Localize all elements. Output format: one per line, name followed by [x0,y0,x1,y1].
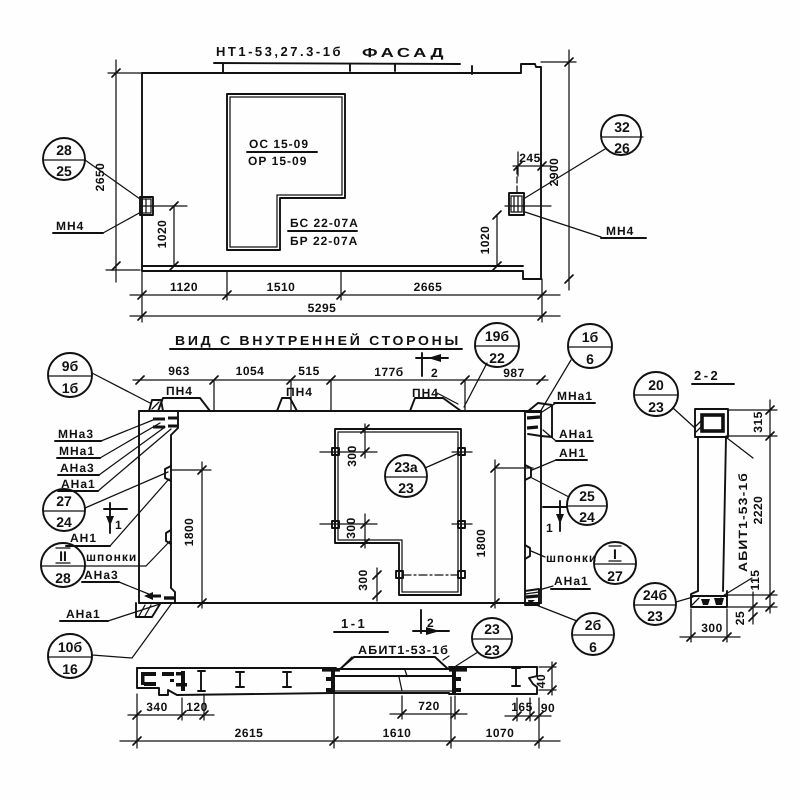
svg-text:23а: 23а [394,459,418,475]
svg-text:24: 24 [579,509,595,525]
inner opening (L-shaped, double outline) [335,429,461,595]
svg-text:5295: 5295 [308,301,337,315]
svg-text:6: 6 [589,639,597,655]
svg-text:25: 25 [56,163,72,179]
svg-text:ФАСАД: ФАСАД [362,45,447,60]
svg-text:26: 26 [614,140,630,156]
left labels МНа3 МНа1 АНа3 АНа1 [55,420,171,491]
rebar mark x516 [512,668,520,686]
wedge ПН4 #3 [410,398,461,411]
left end details of section 1-1 [141,671,205,691]
leader АБИТ top to block [727,438,753,458]
title 2-2 [692,368,734,384]
svg-text:177б: 177б [374,365,403,379]
svg-text:27: 27 [607,568,623,584]
dim 40 right of section [534,662,556,695]
section 1-1 profile outline [137,667,537,695]
dim 1800 right [474,460,533,608]
svg-text:10б: 10б [58,639,83,655]
svg-text:300: 300 [344,517,358,539]
title 1-1 [334,616,388,632]
svg-text:27: 27 [56,493,72,509]
svg-text:БС 22-07А: БС 22-07А [290,216,359,230]
svg-text:ОР 15-09: ОР 15-09 [248,154,307,168]
leader АБИТ to plateau right [443,656,449,660]
inner view top dim line 963 1054 515 177б 987 [133,364,548,410]
svg-text:МН4: МН4 [606,224,634,238]
callout circle 19б/22 [475,323,519,367]
svg-text:ОС 15-09: ОС 15-09 [249,137,309,151]
svg-text:340: 340 [146,700,168,714]
leader АБИТ to plateau left [342,657,352,667]
rebar mark x240 [236,672,244,687]
svg-text:720: 720 [418,699,440,713]
anchor Т mark x332 [322,668,340,693]
sill break marks [405,670,407,676]
svg-text:АН1: АН1 [559,446,586,460]
svg-text:шпонки: шпонки [546,551,597,565]
шпонки keys left rib [166,530,171,544]
leader 2б/6 to panel bottom corner [531,603,577,621]
inner panel left rib line [171,411,178,603]
leader 32/26 to right МН4 [525,149,605,198]
callout circle 27/24 [43,489,85,531]
svg-text:515: 515 [298,364,320,378]
svg-text:1-1: 1-1 [341,616,367,631]
dim 1020 facade right [478,211,501,270]
opening centerline dashed [403,574,458,576]
svg-text:МНа1: МНа1 [557,389,593,403]
bottom-left corner anchor wedge [152,595,161,598]
svg-text:2б: 2б [585,617,602,633]
label АНа1 lower-left [60,604,160,621]
dims 2615 1610 1070 [120,694,560,748]
svg-text:АНа3: АНа3 [84,568,119,582]
svg-text:шпонки: шпонки [86,550,137,564]
wedge ПН4 #2 [277,398,297,411]
svg-text:120: 120 [186,700,208,714]
svg-text:1020: 1020 [155,220,169,249]
callout circle 25/24 [567,485,607,525]
svg-text:23: 23 [647,608,663,624]
svg-text:1070: 1070 [486,726,515,740]
svg-text:МН4: МН4 [56,219,84,233]
facade bottom dims row 1: 1120 1510 2665 [130,271,560,322]
callout circle 23/23 [472,618,512,658]
leader 25/24 to АН1 notch right [532,478,569,497]
svg-text:24б: 24б [643,587,668,603]
шпонки keys right rib [525,545,530,559]
svg-text:ПН4: ПН4 [166,384,193,398]
callout circle 2б/6 [572,613,614,655]
leader 27/24 to АН1 notch [85,472,168,508]
leader 10б/16 to bottom corner [92,603,172,658]
svg-text:25: 25 [733,611,747,625]
svg-text:1610: 1610 [383,726,412,740]
svg-text:1054: 1054 [236,364,265,378]
top-right corner wedge АНа1 [527,427,538,428]
leader 1б/6 to top-right corner [540,360,571,412]
dim 245 [513,151,551,176]
label АНа3 lower-left [82,568,156,597]
svg-text:2665: 2665 [414,280,443,294]
svg-text:165: 165 [511,700,533,714]
callout circle 1б/6 [568,324,612,368]
callout circle 24б/23 [634,583,676,625]
dim chain right of 2-2: 315 2220 115 [726,400,777,613]
dims 340 120 below section [128,694,214,748]
leader шпонки right [531,551,545,557]
text БС 22-07А / БР 22-07А [288,216,359,248]
svg-text:II: II [59,548,67,564]
svg-text:23: 23 [484,621,500,637]
rebar mark x287 [283,672,291,687]
corner block 9б top-left [149,400,163,411]
svg-text:2220: 2220 [751,496,765,525]
section mark 1 left [104,503,127,533]
svg-text:300: 300 [345,445,359,467]
svg-text:2900: 2900 [547,158,561,187]
svg-text:АНа1: АНа1 [66,607,101,621]
svg-text:20: 20 [648,377,664,393]
svg-text:115: 115 [748,570,762,591]
title НТ1-53,27.3-1б ФАСАД [214,44,472,74]
callout circle 9б/1б [48,353,92,397]
svg-text:28: 28 [56,142,72,158]
plateau АБИТ strip in section [340,657,448,669]
top-right corner wedge МНа1 [527,411,541,413]
leader 20/23 to top block [673,408,695,428]
left mount МН4 [140,197,187,215]
leader 9б/1б to corner block [92,373,150,403]
dim 300 opening mid-left [320,514,377,548]
svg-text:23: 23 [484,642,500,658]
svg-text:2: 2 [431,366,439,380]
svg-text:28: 28 [55,570,71,586]
svg-text:963: 963 [168,364,190,378]
svg-text:1800: 1800 [182,518,196,547]
right mount МН4 [505,168,551,215]
top-left anchor dashes МНа/АНа [153,418,178,427]
leader 19б/22 to ПН4 wedge [464,363,487,407]
leader 23/23 to anchor [456,652,478,666]
facade panel bottom ledge line [142,265,523,267]
section mark 2 top [416,353,448,380]
svg-text:22: 22 [489,350,505,366]
facade opening (L-shaped, double outline) [227,94,345,250]
facade bottom dims row 2: 5295 [130,301,560,320]
svg-text:16: 16 [62,661,78,677]
svg-text:1б: 1б [62,380,79,396]
svg-text:АН1: АН1 [70,531,97,545]
svg-text:АНа1: АНа1 [554,574,589,588]
svg-text:9б: 9б [62,358,79,374]
svg-text:НТ1-53,27.3-1б: НТ1-53,27.3-1б [216,44,343,59]
opening anchor squares [332,448,465,578]
svg-text:1510: 1510 [267,280,296,294]
svg-text:32: 32 [614,119,630,135]
svg-text:1120: 1120 [170,280,198,294]
svg-text:1800: 1800 [474,529,488,558]
svg-text:1б: 1б [582,329,599,345]
svg-text:1: 1 [115,518,123,532]
dim 2650 left [93,60,142,282]
svg-text:300: 300 [701,621,723,635]
svg-text:АБИТ1-53-1б: АБИТ1-53-1б [358,643,449,657]
callout circle 28/25 [43,138,85,180]
leader 28/25 to left МН4 [85,160,140,199]
top-right corner cap [527,403,552,437]
callout circle 23а/23 [385,455,427,497]
bottom-left foot [136,603,160,617]
label МН4 left [53,212,141,233]
leader АБИТ bottom to block [721,578,752,597]
callout circle 10б/16 [48,634,92,678]
bottom-right corner anchor block [525,589,539,605]
dim 25 [733,592,757,625]
wedge ПН4 #1 [158,398,210,411]
svg-text:МНа1: МНа1 [59,444,95,458]
svg-text:987: 987 [503,366,525,380]
svg-text:2: 2 [427,616,435,630]
svg-text:1: 1 [546,521,554,535]
callout circle 20/23 [634,372,678,416]
svg-text:АНа1: АНа1 [559,427,594,441]
dim 2900 right [541,50,576,290]
svg-text:40: 40 [534,674,548,688]
svg-text:315: 315 [751,411,765,433]
dim 1020 facade left [155,202,178,270]
svg-text:6: 6 [586,351,594,367]
leader 23а/23 to right anchor [425,453,459,468]
facade panel outline [142,64,541,279]
leader 24б/23 to bottom block [676,597,693,602]
label МН4 right [525,212,646,238]
svg-text:24: 24 [56,514,72,530]
dim 300 opening bottom [356,568,381,601]
svg-text:2-2: 2-2 [694,368,720,383]
anchor F mark x452 [449,668,467,693]
inner panel outline [139,411,541,603]
svg-text:I: I [613,546,617,562]
svg-text:АБИТ1-53-1б: АБИТ1-53-1б [736,472,750,572]
svg-text:245: 245 [519,151,541,165]
svg-text:БР 22-07А: БР 22-07А [290,234,358,248]
right labels МНа1 АНа1 АН1 [532,389,595,470]
section mark 2 bottom [413,610,449,635]
АН1 notch right rib [525,465,531,480]
svg-text:2615: 2615 [235,726,264,740]
section mark 1 right [543,501,566,535]
dim 1800 left [171,462,211,608]
sill top line [333,675,452,677]
dims 165 90 [505,698,555,748]
label АН1 left [66,479,169,546]
leader шпонки to keys [146,541,170,566]
АН1 notch left rib [165,466,171,481]
svg-text:ВИД С ВНУТРЕННЕЙ СТОРОНЫ: ВИД С ВНУТРЕННЕЙ СТОРОНЫ [175,333,461,348]
2-2 bottom block [691,591,727,607]
inner panel right rib line [524,411,526,591]
text ОС 15-09 / ОР 15-09 [247,137,317,168]
svg-text:23: 23 [398,480,414,496]
2-2 shaft [698,437,726,591]
callout circle 32/26 [601,115,643,156]
2-2 top block [695,409,728,437]
dim 300 below 2-2 [680,609,740,642]
svg-text:23: 23 [648,399,664,415]
svg-text:1020: 1020 [478,226,492,255]
svg-text:АНа3: АНа3 [60,461,95,475]
dim 300 opening top-left [320,424,377,467]
svg-text:90: 90 [541,701,555,715]
callout circle I/27 [594,542,636,584]
svg-text:300: 300 [356,569,370,591]
label АНа1 lower-right [539,574,590,590]
dim 720 [390,696,467,719]
svg-text:ПН4: ПН4 [286,385,313,399]
title Вид с внутренней стороны [170,333,462,349]
svg-text:19б: 19б [485,328,510,344]
sill inner line [333,690,455,692]
callout circle II/28 [41,543,146,587]
svg-text:МНа3: МНа3 [58,427,94,441]
svg-text:25: 25 [579,488,595,504]
svg-text:2650: 2650 [93,163,107,192]
